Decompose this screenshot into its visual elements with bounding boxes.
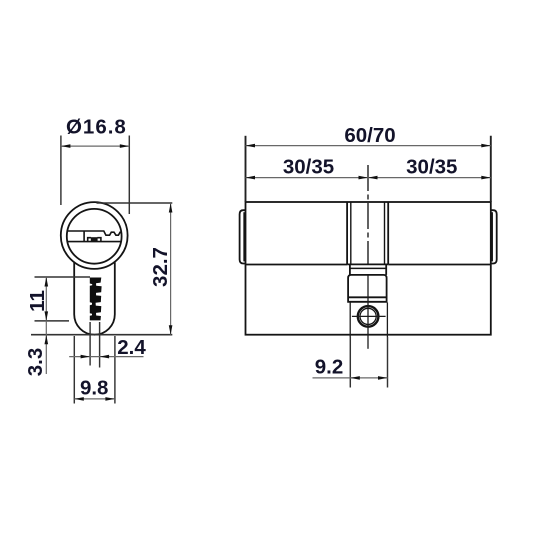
svg-text:Ø16.8: Ø16.8 — [66, 116, 127, 139]
svg-text:32.7: 32.7 — [149, 247, 172, 287]
svg-text:11: 11 — [26, 290, 49, 312]
svg-text:60/70: 60/70 — [344, 124, 395, 147]
svg-text:9.2: 9.2 — [315, 356, 344, 379]
svg-text:3.3: 3.3 — [24, 348, 47, 377]
svg-text:2.4: 2.4 — [117, 336, 146, 359]
svg-text:30/35: 30/35 — [406, 155, 457, 178]
svg-text:30/35: 30/35 — [283, 155, 334, 178]
svg-text:9.8: 9.8 — [80, 377, 109, 400]
